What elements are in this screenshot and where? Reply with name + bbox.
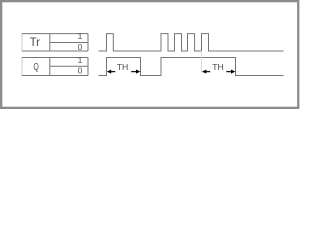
svg-text:TH: TH bbox=[212, 62, 224, 72]
svg-text:TH: TH bbox=[117, 62, 129, 72]
svg-text:Tr: Tr bbox=[30, 37, 41, 49]
svg-text:0: 0 bbox=[78, 65, 83, 75]
svg-text:1: 1 bbox=[78, 55, 83, 65]
svg-text:1: 1 bbox=[78, 31, 83, 41]
svg-text:Q: Q bbox=[34, 61, 40, 73]
svg-text:0: 0 bbox=[78, 42, 83, 52]
